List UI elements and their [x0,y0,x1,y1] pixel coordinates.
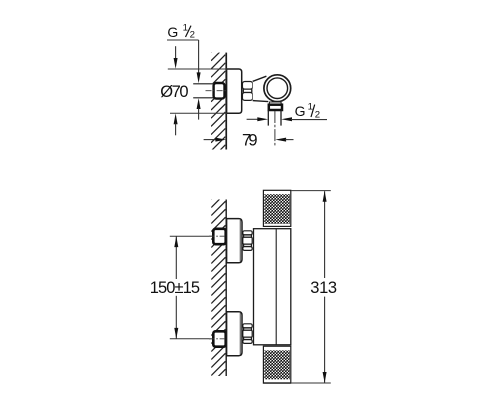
dimension 313 extension lines [291,190,331,192]
mixer body (front view) [254,229,291,345]
wall face line (top figure) [225,53,227,150]
wall union nut (lower) [213,331,225,346]
svg-text:313: 313 [310,279,337,297]
wall face line (lower figure) [226,200,227,377]
svg-text:2: 2 [190,30,195,41]
outlet nut [269,105,282,110]
flange / escutcheon (lower) [227,312,242,356]
dimension 150±15 [175,236,177,279]
mixer body cone [253,76,270,102]
svg-text:G: G [295,103,306,119]
svg-text:1: 1 [183,22,188,33]
supply pipe behind wall [193,83,214,98]
150 dim extension / centerline (upper connection) [170,235,209,237]
outlet pipe [267,110,269,126]
union nut (lower, 5 bands) [243,324,252,344]
dimension Ø70 extension lines [168,68,227,70]
hex connector nut (side view, 3 faces) [242,82,252,101]
top handle (knurled) [263,190,290,226]
outlet neck [269,102,281,105]
svg-text:G: G [167,24,178,40]
svg-text:79: 79 [242,132,258,150]
label G 1/2 (top supply) [167,22,195,40]
dimension Ø70 arrows [175,46,177,60]
mixer body circle (inner) [267,78,288,99]
leader to supply [167,39,199,41]
wall hatch (lower figure) [211,185,225,391]
svg-text:2: 2 [315,109,320,120]
wall flange / escutcheon (side view) [227,69,242,113]
dimension G 1/2 outlet arrows [247,118,259,120]
union nut (upper, 5 bands) [243,231,252,251]
supply hex nut on wall [223,84,226,87]
supply centerline [206,90,232,92]
bottom handle (knurled) [263,346,290,383]
label G 1/2 (outlet) [295,101,321,120]
svg-text:150±15: 150±15 [150,279,200,297]
svg-text:1: 1 [308,101,313,112]
arrow to supply bottom edge [197,98,201,109]
svg-text:Ø70: Ø70 [160,83,188,101]
dimension 79 [204,139,216,141]
wall hatch (top figure) [211,38,225,167]
dimension 313 [324,191,326,278]
flange / escutcheon (upper) [227,219,242,263]
wall union nut (upper) [213,229,225,244]
outlet centerline [274,111,276,147]
150 dim extension / centerline (lower connection) [170,338,209,340]
mixer body circle (outer) [264,75,291,102]
